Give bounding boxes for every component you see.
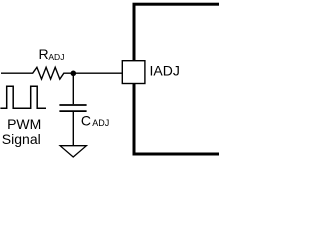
svg-text:PWM: PWM [7,116,41,132]
svg-text:R: R [39,46,49,62]
svg-text:IADJ: IADJ [150,63,180,79]
svg-text:ADJ: ADJ [48,52,64,62]
svg-text:ADJ: ADJ [92,118,109,128]
svg-text:C: C [81,113,91,129]
svg-text:Signal: Signal [2,131,41,147]
